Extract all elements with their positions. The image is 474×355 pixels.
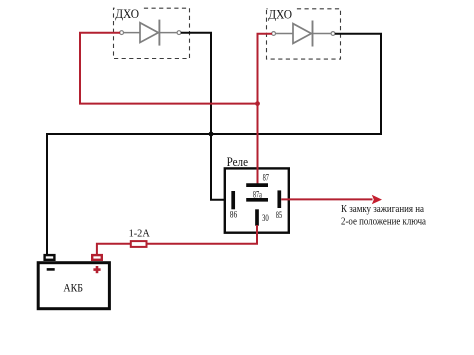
relay pin 86 <box>231 191 235 209</box>
svg-text:86: 86 <box>230 210 238 220</box>
wire: battery minus to bus, bus to diode D2 cathode (black) <box>47 34 381 255</box>
diode D1 (inside left ДХО) <box>120 20 181 46</box>
svg-text:ДХО: ДХО <box>115 6 139 21</box>
relay pin 85 <box>277 190 281 208</box>
svg-text:1-2А: 1-2А <box>129 228 150 240</box>
wire: battery plus through fuse to relay pin 30 (red) <box>97 225 257 256</box>
battery plus sign <box>93 266 100 273</box>
relay pin 30 <box>255 209 259 225</box>
junction: red wire junction <box>255 101 260 106</box>
diode D2 (inside right ДХО) <box>272 21 335 47</box>
label ДХО (box 1) <box>115 6 141 21</box>
battery minus terminal <box>45 255 55 260</box>
fuse 1-2A <box>131 241 147 247</box>
svg-text:87a: 87a <box>253 190 262 200</box>
svg-text:ДХО: ДХО <box>268 6 292 21</box>
wire: junction to relay pin 87 and to diode D2 anode (red) <box>258 34 273 184</box>
wire: diode D1 cathode down to bus and on to relay pin 86 (black) <box>181 33 232 200</box>
svg-text:2-ое положение ключа: 2-ое положение ключа <box>341 217 426 228</box>
svg-text:87: 87 <box>263 173 270 183</box>
relay pin 87a <box>246 198 268 202</box>
svg-text:Реле: Реле <box>227 154 249 169</box>
arrowhead to ignition lock <box>372 195 382 205</box>
junction: black bus junction <box>209 132 214 137</box>
wire: DRL1 anode feed (red) <box>80 33 258 104</box>
label ДХО (box 2) <box>268 6 294 21</box>
svg-text:85: 85 <box>276 210 283 220</box>
relay pin 87 <box>246 183 268 187</box>
relay body (Реле) <box>225 168 289 232</box>
battery plus terminal <box>92 255 102 260</box>
battery body (АКБ) <box>38 263 109 309</box>
battery minus sign <box>47 268 55 271</box>
svg-text:К замку зажигания на: К замку зажигания на <box>341 204 424 215</box>
DRL unit box 1 (ДХО, dashed) <box>114 8 190 58</box>
DRL unit box 2 (ДХО, dashed) <box>267 9 341 59</box>
wire: relay pin 85 to ignition (red) <box>281 198 372 200</box>
svg-text:АКБ: АКБ <box>63 280 83 294</box>
svg-text:30: 30 <box>262 213 269 223</box>
